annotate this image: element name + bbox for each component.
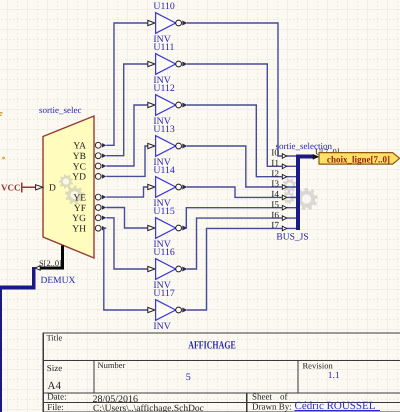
value 5 (186, 372, 191, 383)
node I2 (271, 169, 286, 179)
port arrow (313, 154, 320, 160)
svg-text:Number: Number (98, 360, 126, 370)
stray orange marks (0, 112, 5, 160)
svg-text:VCC: VCC (1, 182, 21, 192)
bus segment to port (296, 155, 313, 159)
label S[2..0] (39, 259, 62, 268)
svg-text:YG: YG (72, 214, 86, 224)
pin label D (49, 184, 56, 194)
svg-text:File:: File: (47, 402, 64, 412)
svg-text:1.1: 1.1 (328, 371, 340, 381)
svg-text:U112: U112 (153, 83, 175, 94)
pin YC (73, 162, 107, 172)
svg-text:choix_ligne[7..0]: choix_ligne[7..0] (327, 154, 390, 165)
wire YB to U111 (106, 64, 147, 156)
svg-text:U111: U111 (153, 42, 174, 53)
svg-text:BUS_JS: BUS_JS (276, 233, 308, 243)
svg-text:AFFICHAGE: AFFICHAGE (188, 340, 236, 352)
svg-text:I7: I7 (271, 221, 279, 231)
svg-text:DEMUX: DEMUX (41, 276, 76, 286)
svg-text:Date:: Date: (47, 392, 66, 402)
wire YD to U113 (106, 146, 147, 176)
pin YF (74, 204, 106, 214)
svg-text:D: D (49, 184, 56, 194)
svg-text:Title: Title (47, 332, 63, 342)
inverter U114 (148, 165, 188, 209)
wire U110 output to bus I0 (187, 23, 296, 156)
inverter U110 (148, 1, 188, 45)
svg-text:I5: I5 (271, 200, 279, 210)
wire U115 output to bus I5 (186, 208, 296, 228)
wire YG to U116 (106, 218, 147, 269)
svg-text:U114: U114 (153, 165, 175, 176)
wire U111 output to bus I1 (187, 64, 296, 166)
pin YH (72, 225, 106, 235)
title block texts (47, 332, 334, 412)
svg-text:I1: I1 (271, 159, 279, 169)
gear watermark on demux (59, 174, 84, 204)
wire U117 output to bus I7 (187, 228, 296, 310)
wire YH to U117 (104, 228, 148, 310)
value Cedric ROUSSEL (295, 400, 381, 412)
svg-text:A4: A4 (48, 380, 62, 392)
svg-text:I2: I2 (271, 169, 279, 179)
svg-text:U113: U113 (153, 124, 175, 135)
value 1.1 (328, 371, 340, 381)
wire YC to U112 (106, 105, 147, 166)
svg-text:S[2..0]: S[2..0] (39, 259, 62, 268)
gear watermark near bus (282, 178, 318, 210)
svg-text:5: 5 (186, 372, 191, 383)
node I5 (271, 200, 286, 210)
inverter U117 (148, 288, 188, 332)
inverter U113 (148, 124, 188, 168)
svg-text:YB: YB (73, 152, 86, 162)
power port VCC (1, 182, 36, 192)
svg-text:YD: YD (72, 173, 86, 183)
wire YE to U114 (106, 187, 147, 197)
node I4 (271, 190, 286, 200)
svg-text:Revision: Revision (303, 360, 334, 370)
svg-text:YA: YA (73, 142, 86, 152)
node I6 (271, 211, 286, 221)
wire U113 output to bus I3 (187, 146, 296, 187)
wire YF to U115 (106, 208, 147, 229)
port choix_ligne[7..0] (319, 153, 400, 166)
svg-text:Drawn By:: Drawn By: (252, 401, 292, 411)
net label U[7..0] (occluded) (315, 146, 340, 156)
pin YA (73, 142, 106, 152)
sheet border left edge (0, 287, 2, 412)
svg-text:C:\Users\..\affichage.SchDoc: C:\Users\..\affichage.SchDoc (93, 404, 204, 412)
svg-text:YE: YE (73, 193, 86, 203)
svg-text:INV: INV (153, 321, 170, 332)
node I3 (271, 180, 286, 190)
pin D input arrow (36, 185, 43, 190)
label sortie_selec (39, 105, 81, 115)
inverter U111 (148, 42, 188, 86)
pin YE (73, 193, 106, 203)
value AFFICHAGE (188, 340, 236, 352)
demux sortie_selec (43, 116, 94, 258)
svg-text:I6: I6 (271, 211, 279, 221)
bus navy elbow to sheet edge (0, 267, 35, 290)
svg-text:I4: I4 (271, 190, 279, 200)
svg-text:YH: YH (72, 225, 86, 235)
svg-text:Size: Size (47, 363, 63, 373)
inverter U115 (148, 206, 188, 250)
label DEMUX (41, 276, 76, 286)
label sortie_selection (276, 141, 333, 151)
svg-text:YC: YC (73, 162, 86, 172)
svg-text:of: of (280, 391, 288, 401)
wire U116 output to bus I6 (187, 218, 296, 269)
pin YB (73, 152, 107, 162)
pin YG (72, 214, 106, 224)
wire U112 output to bus I2 (187, 105, 296, 177)
svg-text:YF: YF (74, 204, 86, 214)
node I0 (271, 149, 286, 159)
wire YA to U110 (106, 23, 147, 145)
svg-text:sortie_selec: sortie_selec (39, 105, 81, 115)
svg-text:U116: U116 (153, 247, 175, 258)
svg-text:U115: U115 (153, 206, 175, 217)
inverter U116 (148, 247, 188, 291)
bus BUS_JS vertical (296, 154, 300, 230)
title block frame (43, 332, 400, 412)
svg-text:U117: U117 (153, 288, 175, 299)
bus entry arrow (35, 266, 40, 270)
label BUS_JS (276, 233, 308, 243)
wire U114 output to bus I4 (187, 187, 296, 197)
svg-text:I3: I3 (271, 180, 279, 190)
svg-text:U110: U110 (153, 1, 175, 12)
svg-text:Sheet: Sheet (252, 391, 272, 401)
bus S[2..0] black segment (41, 246, 65, 270)
node I1 (271, 159, 286, 169)
node I7 (271, 221, 286, 231)
pin YD (72, 173, 106, 183)
inverter U112 (148, 83, 188, 127)
